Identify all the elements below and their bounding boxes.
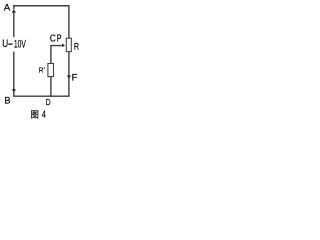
svg-text:B: B bbox=[4, 95, 10, 105]
svg-text:R: R bbox=[74, 41, 79, 51]
prime tick of R' bbox=[43, 67, 46, 69]
svg-text:R: R bbox=[39, 66, 44, 75]
svg-text:10V: 10V bbox=[14, 39, 27, 51]
resistor R' box bbox=[48, 64, 54, 77]
resistor R box bbox=[66, 38, 71, 51]
up arrowhead near A bbox=[12, 10, 16, 13]
svg-text:F: F bbox=[72, 73, 78, 84]
R' bottom lead to node D bbox=[50, 77, 52, 97]
wire left upper segment bbox=[13, 12, 15, 37]
svg-text:图: 图 bbox=[30, 109, 39, 119]
svg-text:U: U bbox=[2, 38, 8, 50]
svg-text:C: C bbox=[50, 34, 56, 45]
svg-text:D: D bbox=[46, 97, 51, 107]
wiper arrowhead P bbox=[62, 44, 65, 48]
top wire from A corner to R top lead bbox=[14, 6, 69, 39]
svg-text:P: P bbox=[57, 34, 62, 45]
dash of U-10V bbox=[8, 43, 12, 45]
wire left lower segment + bottom wire + right lower wire bbox=[14, 52, 69, 97]
wiper wire from node C to arrow at P bbox=[51, 46, 62, 64]
down arrowhead F on right wire bbox=[67, 76, 71, 79]
svg-text:A: A bbox=[4, 2, 11, 13]
svg-text:4: 4 bbox=[42, 110, 46, 121]
down arrowhead near B bbox=[12, 89, 16, 92]
